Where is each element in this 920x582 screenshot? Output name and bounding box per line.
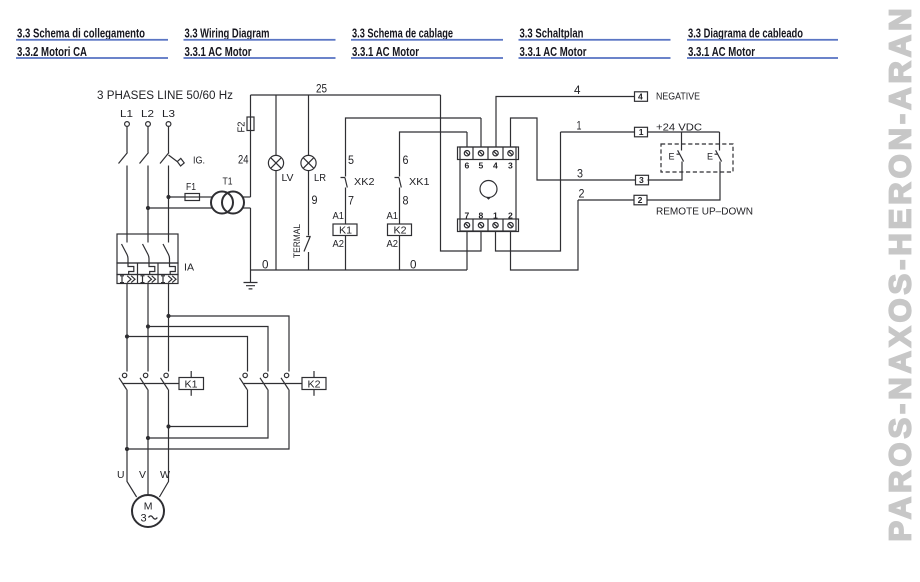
svg-text:IA: IA	[184, 262, 194, 274]
dashed remote box	[661, 144, 733, 172]
svg-text:L3: L3	[162, 108, 175, 120]
wire K2 contact3 to phase1 lower	[127, 390, 289, 450]
wire terminal 7 to 0 bus	[466, 232, 468, 271]
IA pole 3 breaker blade	[163, 244, 170, 263]
label L2	[141, 108, 154, 120]
junction phase3 lower	[166, 424, 170, 428]
wire T1 secondary bottom to 0 branch	[242, 207, 250, 209]
IA pole 1 magnetic I>>	[120, 276, 135, 283]
svg-text:PAROS-NAXOS-HERON-ARAN: PAROS-NAXOS-HERON-ARAN	[883, 9, 918, 542]
bus 0 horizontal	[251, 269, 468, 271]
svg-text:M: M	[144, 501, 153, 513]
label 5	[348, 153, 354, 167]
svg-text:3: 3	[577, 167, 583, 181]
IA pole 3 thermal element	[170, 263, 176, 275]
watermark PAROS-NAXOS-HERON-ARAN	[883, 9, 918, 542]
svg-text:E: E	[669, 152, 675, 162]
svg-text:LV: LV	[282, 172, 294, 184]
wire node 5 branch top	[346, 118, 482, 177]
wire terminal 3 riser	[511, 118, 636, 180]
fuse F1	[185, 194, 200, 201]
svg-text:REMOTE UP–DOWN: REMOTE UP–DOWN	[656, 206, 753, 218]
header title FR row2	[352, 45, 419, 59]
connector center hole	[480, 181, 497, 199]
wire L3 switch to IA	[168, 166, 170, 235]
wire K2 contact2 to phase2 lower	[148, 390, 268, 439]
svg-text:A2: A2	[333, 238, 345, 250]
svg-text:W: W	[160, 469, 170, 481]
thermal switch contact	[304, 237, 311, 252]
header underline IT row2	[16, 57, 168, 59]
coil K2	[388, 224, 412, 237]
label NEGATIVE	[656, 91, 700, 103]
label IG.	[193, 155, 205, 167]
label A1 of K2	[387, 210, 399, 222]
header underline FR row2	[351, 57, 503, 59]
wire phase2 to K2 middle contact	[148, 327, 268, 372]
wire F1 to T1 primary top	[200, 196, 213, 198]
wire T1 secondary bottom drop	[250, 208, 252, 270]
label A1 of K1	[333, 210, 345, 222]
switch IG pole 1 blade	[119, 153, 128, 164]
label 0 left	[262, 258, 269, 272]
label A2 of K2	[387, 238, 399, 250]
wire LV to 0 bus	[275, 171, 277, 270]
wire lamp LV drop	[275, 95, 277, 156]
header title EN row2	[185, 45, 252, 59]
header title ES row2	[688, 45, 755, 59]
IA pole 1 thermal element	[128, 263, 134, 275]
wire terminal 4 to NEGATIVE	[496, 97, 635, 148]
svg-text:3: 3	[508, 161, 513, 171]
svg-text:LR: LR	[314, 172, 326, 184]
header underline EN row1	[184, 39, 336, 41]
wire thermal switch to 0 bus	[308, 252, 310, 270]
contactor K1 contact 3	[161, 373, 169, 389]
HEADER	[16, 27, 838, 59]
wire node 1 horizontal	[561, 131, 635, 133]
wire F2 branch vertical	[250, 95, 252, 197]
rail +24 to pushbuttons	[648, 131, 720, 133]
label XK1	[409, 176, 430, 188]
svg-text:A1: A1	[387, 210, 399, 222]
svg-text:3.3.1 AC Motor: 3.3.1 AC Motor	[688, 45, 755, 59]
connector top terminal strip	[458, 147, 519, 160]
wire terminal 1 to +24 riser	[496, 132, 561, 251]
IA pole 2 magnetic I>>	[141, 276, 156, 283]
header title IT row1	[17, 27, 145, 41]
pushbutton E2 contact	[715, 150, 722, 161]
pin number 6	[465, 161, 470, 171]
svg-text:3.3.2 Motori CA: 3.3.2 Motori CA	[17, 45, 87, 59]
wire XK1 to coil K2	[399, 188, 401, 225]
svg-text:NEGATIVE: NEGATIVE	[656, 91, 700, 103]
lamp LR	[301, 155, 316, 170]
header underline IT row1	[16, 39, 168, 41]
IA pole 1 entry wire	[126, 234, 128, 243]
header title FR row1	[352, 27, 453, 41]
wire bus 25 to terminal 8	[441, 95, 482, 251]
screw terminal 5 top	[478, 151, 483, 156]
ground symbol	[244, 270, 258, 289]
svg-text:0: 0	[410, 258, 417, 272]
wire XK2 to coil K1	[345, 188, 347, 225]
IA pole 3 magnetic I>>	[161, 276, 176, 283]
svg-text:K1: K1	[339, 225, 352, 237]
header title IT row2	[17, 45, 87, 59]
svg-text:A2: A2	[387, 238, 399, 250]
svg-text:IG.: IG.	[193, 155, 205, 167]
wire phase V to motor	[147, 390, 149, 495]
svg-text:3: 3	[141, 513, 147, 525]
svg-text:5: 5	[479, 161, 484, 171]
svg-text:3.3 Diagrama de cableado: 3.3 Diagrama de cableado	[688, 27, 803, 41]
label IA	[184, 262, 194, 274]
label A2 of K1	[333, 238, 345, 250]
terminal box 2	[634, 195, 647, 205]
label TERMAL (rotated)	[292, 224, 303, 258]
svg-text:U: U	[117, 469, 125, 481]
header underline ES row2	[687, 57, 838, 59]
svg-text:9: 9	[312, 193, 318, 207]
label F1	[186, 181, 196, 193]
junction L3 to F1	[166, 195, 170, 199]
screw terminal 7 bottom	[464, 223, 469, 228]
pin number 3	[508, 161, 513, 171]
label 1 on +24 wire	[577, 119, 582, 133]
header underline FR row1	[351, 39, 503, 41]
svg-text:1: 1	[639, 127, 644, 137]
terminal circle L2	[146, 122, 151, 127]
title 3 PHASES LINE 50/60 Hz	[97, 90, 233, 102]
svg-text:T1: T1	[223, 176, 233, 188]
terminal circle L1	[125, 122, 130, 127]
label LR	[314, 172, 326, 184]
SIDEBAR	[883, 9, 918, 542]
svg-text:6: 6	[465, 161, 470, 171]
switch IG pole 2 blade	[140, 153, 149, 164]
IA pole 2 entry wire	[147, 234, 149, 243]
svg-text:0: 0	[262, 258, 269, 272]
pin number 8	[479, 211, 484, 221]
transformer T1 secondary winding	[222, 192, 244, 214]
svg-text:3.3.1 AC Motor: 3.3.1 AC Motor	[352, 45, 419, 59]
svg-text:3.3 Schema de cablage: 3.3 Schema de cablage	[352, 27, 453, 41]
svg-text:E: E	[707, 152, 713, 162]
wire lamp LR drop	[308, 95, 310, 156]
screw terminal 8 bottom	[478, 223, 483, 228]
contactor K2 linkage	[244, 383, 303, 385]
fuse F2	[247, 117, 254, 131]
bus 25 top horizontal	[251, 94, 441, 96]
svg-text:A1: A1	[333, 210, 345, 222]
contactor K1 box	[179, 371, 204, 396]
wire phase1 to K2 left contact	[127, 337, 248, 372]
coil K1	[333, 224, 357, 237]
header underline EN row2	[184, 57, 336, 59]
screw terminal 1 bottom	[493, 223, 498, 228]
wire phase W to motor	[159, 390, 168, 498]
label 3 on wire	[577, 167, 583, 181]
junction phase3 upper	[166, 314, 170, 318]
header underline ES row1	[687, 39, 838, 41]
junction phase2 upper	[146, 324, 150, 328]
wire E1 drop from rail	[681, 132, 683, 151]
contactor K1 contact 1	[119, 373, 127, 389]
terminal circle L3	[166, 122, 171, 127]
label E1	[669, 152, 675, 162]
switch IG handle linkage	[169, 155, 185, 166]
svg-text:7: 7	[348, 194, 354, 208]
wire E2 drop from rail	[719, 132, 721, 151]
header title DE row1	[520, 27, 584, 41]
wire L2 to T1 primary bottom	[148, 207, 213, 209]
contact XK1	[395, 178, 402, 188]
svg-text:3.3 Wiring Diagram: 3.3 Wiring Diagram	[185, 27, 270, 41]
svg-text:XK2: XK2	[354, 176, 375, 188]
lamp LV	[268, 155, 283, 170]
svg-text:6: 6	[403, 153, 409, 167]
label 7	[348, 194, 354, 208]
svg-text:F2: F2	[236, 121, 248, 132]
screw terminal 3 top	[508, 151, 513, 156]
svg-text:3.3 Schaltplan: 3.3 Schaltplan	[520, 27, 584, 41]
IA pole 3 entry wire	[168, 234, 170, 243]
wire L1 drop to switch	[126, 127, 128, 153]
svg-text:3 PHASES LINE 50/60 Hz: 3 PHASES LINE 50/60 Hz	[97, 90, 233, 102]
contactor K1 contact 2	[140, 373, 148, 389]
screw terminal 2 bottom	[508, 223, 513, 228]
wire E2 to node 2	[647, 162, 720, 201]
svg-text:3: 3	[639, 175, 644, 185]
terminal box 3	[636, 175, 649, 185]
motor label 3 phase	[141, 513, 158, 525]
svg-text:2: 2	[638, 195, 643, 205]
svg-text:L1: L1	[120, 108, 133, 120]
wire L2 switch to IA	[147, 166, 149, 235]
label 25	[316, 82, 327, 96]
contactor K1 linkage	[123, 383, 179, 385]
terminal box 4	[635, 92, 648, 102]
label 8	[403, 194, 409, 208]
breaker IA middle band	[117, 263, 178, 275]
connector block XK body	[460, 147, 516, 231]
junction L2 to T1	[146, 206, 150, 210]
wire coil K1 to 0 bus	[345, 236, 347, 271]
header title DE row2	[520, 45, 587, 59]
screw terminal 4 top	[493, 151, 498, 156]
label +24 VDC	[656, 122, 702, 134]
pin number 4	[493, 161, 498, 171]
wire terminal 6 riser	[466, 132, 468, 147]
svg-text:2: 2	[579, 187, 585, 201]
svg-text:K2: K2	[308, 378, 321, 390]
label W	[160, 469, 170, 481]
pushbutton E1 contact	[677, 150, 684, 161]
label E2	[707, 152, 713, 162]
motor M circle	[132, 495, 164, 527]
wire node 2 horizontal	[578, 199, 634, 201]
label V	[139, 469, 146, 481]
label T1	[223, 176, 233, 188]
contactor K2 contact 1	[240, 373, 248, 389]
svg-text:4: 4	[638, 92, 643, 102]
contact XK2	[341, 178, 348, 188]
svg-text:F1: F1	[186, 181, 196, 193]
terminal box 1	[635, 127, 648, 137]
connector bottom terminal strip	[458, 219, 519, 232]
label 6	[403, 153, 409, 167]
label L3	[162, 108, 175, 120]
wire LR to thermal switch	[308, 171, 310, 236]
pin number 7	[465, 211, 470, 221]
pin number 1	[493, 211, 498, 221]
label LV	[282, 172, 294, 184]
transformer T1 primary winding	[211, 192, 233, 214]
label 9	[312, 193, 318, 207]
label REMOTE UP-DOWN	[656, 206, 753, 218]
wire T1 secondary top to F2 branch	[243, 196, 251, 198]
junction phase1 lower	[125, 447, 129, 451]
header title ES row1	[688, 27, 803, 41]
label F2 (rotated)	[236, 121, 248, 132]
label U	[117, 469, 125, 481]
pin number 5	[479, 161, 484, 171]
svg-text:3.3 Schema di collegamento: 3.3 Schema di collegamento	[17, 27, 145, 41]
wire phase1 IA to K1 contact	[126, 284, 128, 372]
wire phase2 IA to K1 contact	[147, 284, 149, 372]
svg-text:K1: K1	[185, 378, 198, 390]
contactor K2 contact 3	[281, 373, 289, 389]
svg-text:V: V	[139, 469, 146, 481]
wire node 6 branch top	[400, 132, 468, 177]
wire phase3 IA to K1 contact	[168, 284, 170, 372]
switch IG pole 3 blade	[160, 153, 169, 164]
header underline DE row2	[519, 57, 671, 59]
label 24	[238, 153, 249, 167]
svg-text:24: 24	[238, 153, 249, 167]
svg-text:3.3.1 AC Motor: 3.3.1 AC Motor	[185, 45, 252, 59]
svg-text:L2: L2	[141, 108, 154, 120]
wire phase3 to K2 right contact	[169, 316, 290, 372]
wire E1 to node 3	[648, 162, 683, 181]
label 4 on negative wire	[574, 83, 581, 97]
wire terminal 5 riser	[480, 118, 482, 147]
wire coil K2 to 0 bus	[399, 236, 401, 271]
svg-text:8: 8	[403, 194, 409, 208]
svg-text:4: 4	[574, 83, 581, 97]
IA pole 2 thermal element	[149, 263, 155, 275]
breaker IA outer box	[117, 234, 178, 263]
label 2 on wire	[579, 187, 585, 201]
svg-text:3.3.1 AC Motor: 3.3.1 AC Motor	[520, 45, 587, 59]
breaker IA bottom band	[117, 275, 178, 284]
header title EN row1	[185, 27, 270, 41]
wire terminal 2 to node 2	[511, 200, 579, 270]
label 0 right	[410, 258, 417, 272]
contactor K2 contact 2	[260, 373, 268, 389]
junction phase2 lower	[146, 436, 150, 440]
label XK2	[354, 176, 375, 188]
header underline DE row1	[519, 39, 671, 41]
IA pole 2 breaker blade	[143, 244, 150, 263]
screw terminal 6 top	[464, 151, 469, 156]
label L1	[120, 108, 133, 120]
svg-text:4: 4	[493, 161, 498, 171]
wire L1 switch to IA	[126, 166, 128, 235]
motor label M	[144, 501, 153, 513]
wire K2 contact1 to phase3 lower	[169, 390, 248, 427]
svg-text:5: 5	[348, 153, 354, 167]
junction phase1 upper	[125, 334, 129, 338]
svg-text:K2: K2	[394, 225, 407, 237]
wire L3 drop to switch	[168, 127, 170, 153]
pin number 2	[508, 211, 513, 221]
svg-text:TERMAL: TERMAL	[292, 224, 303, 258]
wire L3 to fuse F1	[169, 196, 186, 198]
svg-text:1: 1	[577, 119, 582, 133]
IA pole 1 breaker blade	[122, 244, 129, 263]
svg-text:XK1: XK1	[409, 176, 430, 188]
wire phase U to motor	[127, 390, 137, 498]
svg-text:25: 25	[316, 82, 327, 96]
wire L2 drop to switch	[147, 127, 149, 153]
contactor K2 box	[302, 371, 326, 396]
